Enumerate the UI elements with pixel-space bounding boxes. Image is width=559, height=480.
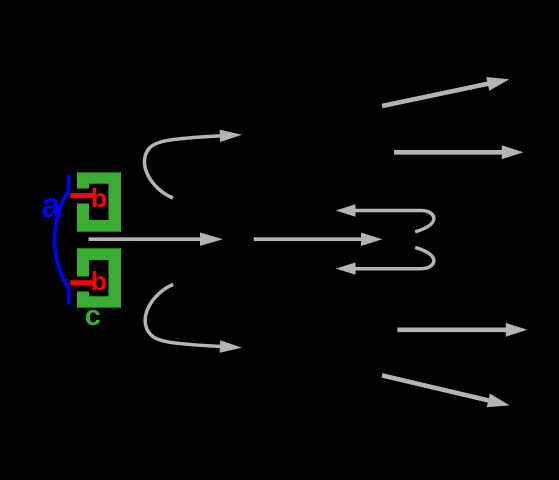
- curved arrow upper left (ray bending around upper ring): [144, 136, 220, 198]
- svg-text:a: a: [41, 186, 61, 225]
- arrow lower right horizontal: [397, 327, 506, 332]
- ring lower (green square ring with slit, part of c): [77, 248, 121, 307]
- curved arrow lower left (ray bending around lower ring): [145, 284, 220, 346]
- blue wavefront a: arc: [54, 191, 68, 289]
- ring upper (green square ring with slit, part of c): [77, 172, 121, 231]
- svg-text:b: b: [91, 183, 107, 213]
- svg-text:b: b: [91, 266, 107, 296]
- arrow middle B (ray continues right): [254, 237, 362, 241]
- hook arrow upper (reflected ray turning back left): [356, 211, 434, 232]
- svg-text:c: c: [85, 300, 101, 332]
- blue wavefront a: top tick: [67, 175, 71, 192]
- red tick b upper: [70, 193, 93, 198]
- arrow upper right horizontal: [394, 150, 502, 155]
- blue wavefront a: bottom tick: [67, 288, 71, 305]
- arrow upper right slanted up: [382, 84, 488, 106]
- arrow middle A (incident ray into gap): [89, 237, 202, 241]
- red tick b lower: [70, 280, 93, 285]
- hook arrow lower (reflected ray turning back left): [356, 247, 434, 268]
- arrow lower right slanted down: [382, 375, 488, 400]
